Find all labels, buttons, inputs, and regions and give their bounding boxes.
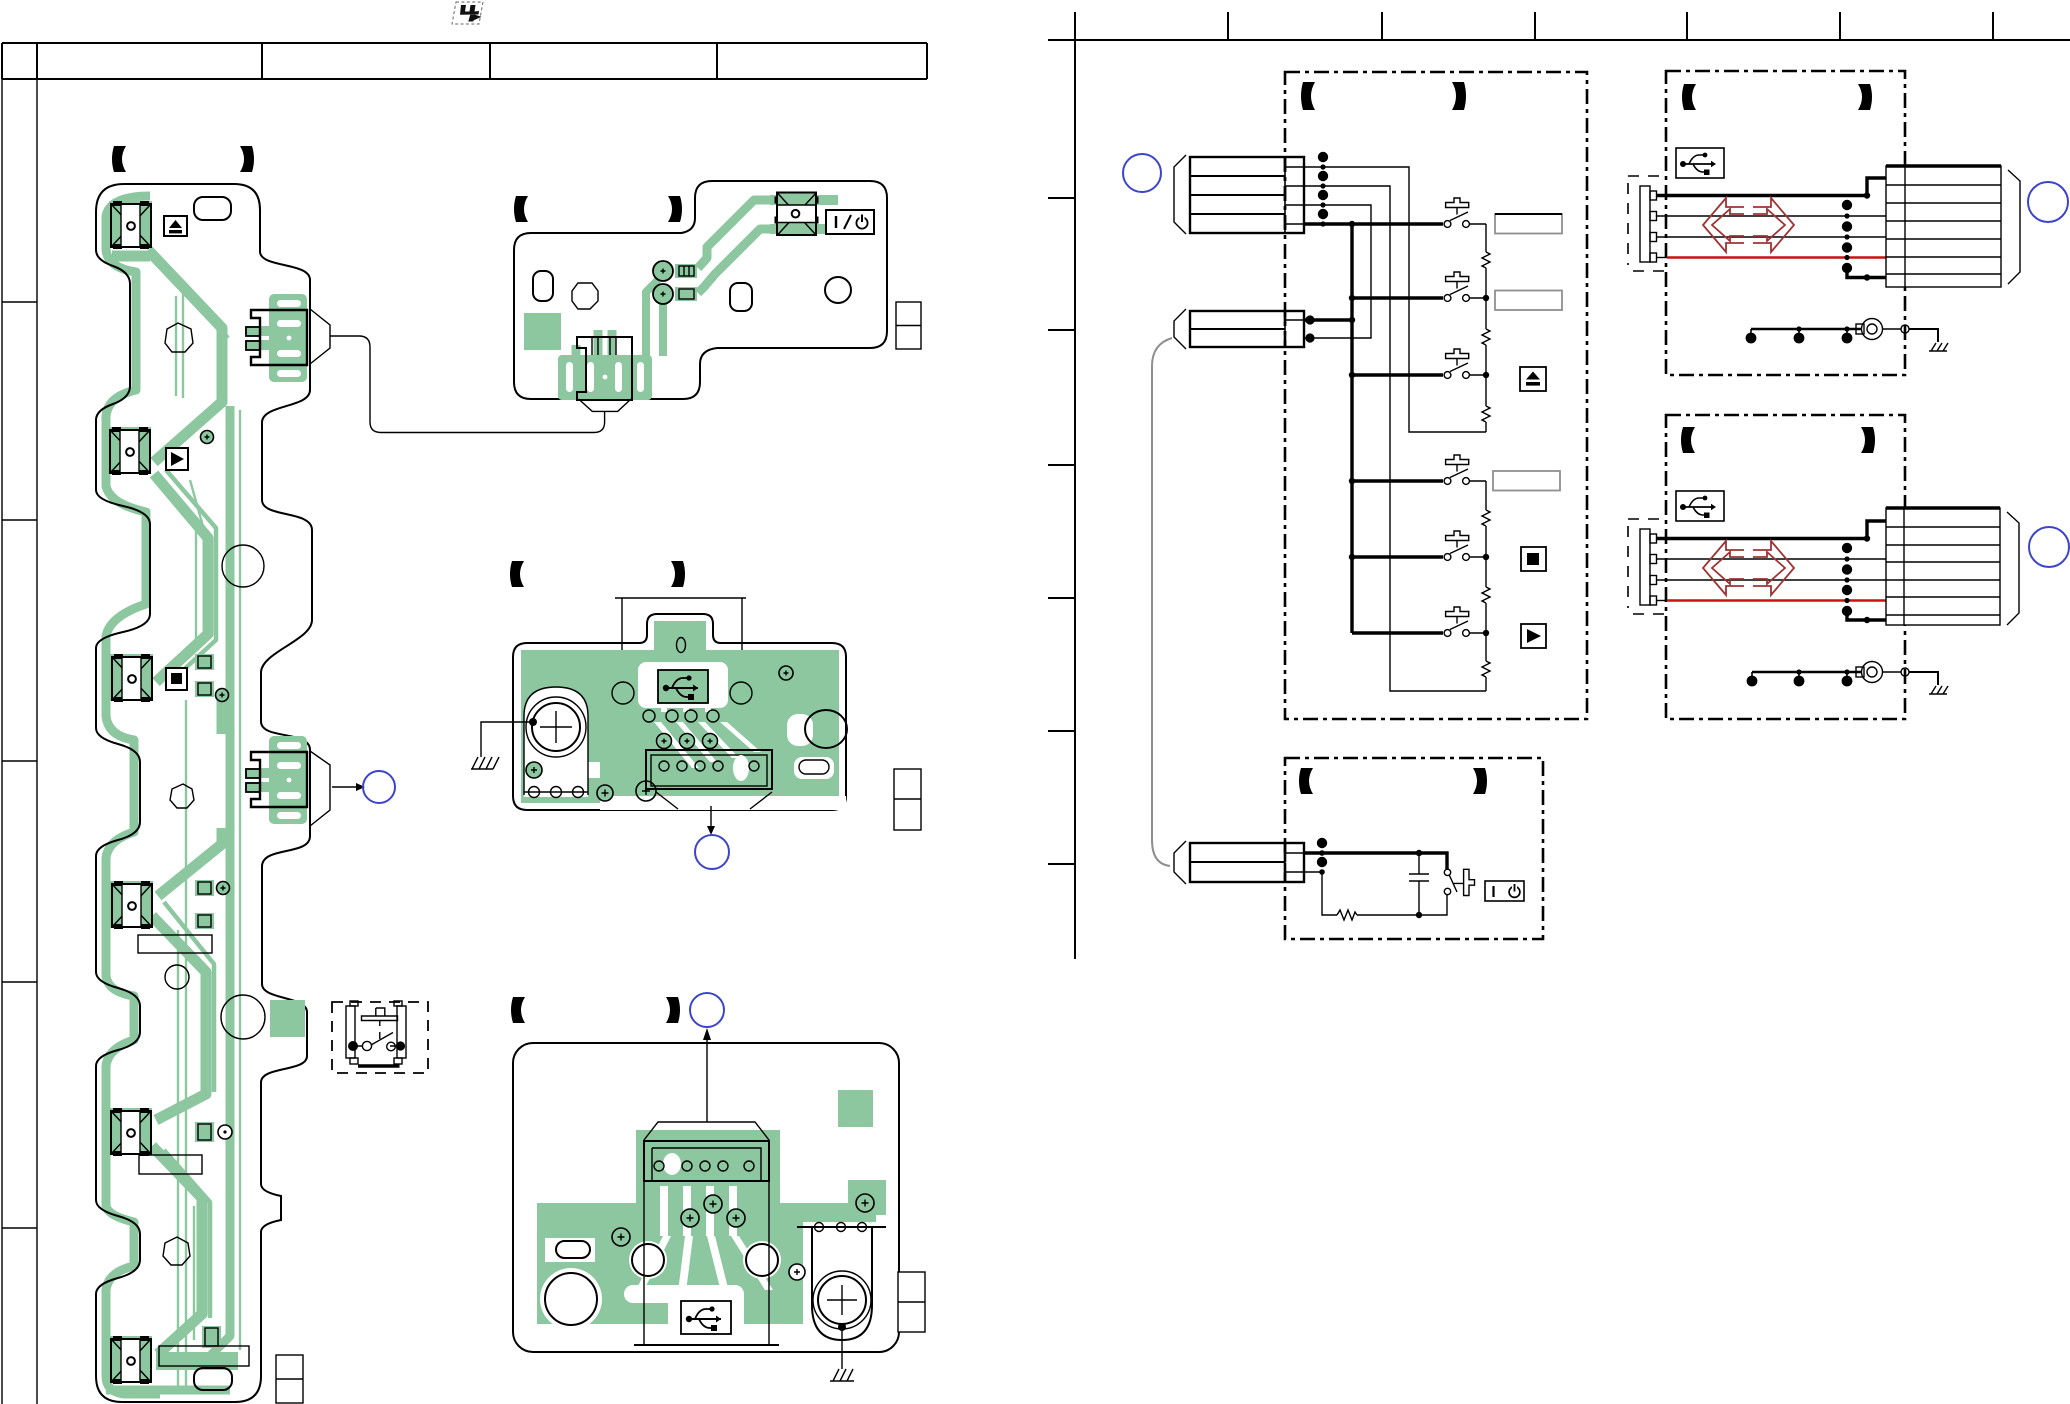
gray interconnect wire	[1152, 338, 1172, 866]
top border rule (schematic zone)	[1048, 12, 2070, 959]
ring terminal block1	[1856, 324, 1864, 334]
block1 ground bus	[1751, 329, 1862, 334]
thick row wires to switches	[1352, 298, 1443, 633]
usb icon box block2	[1676, 491, 1724, 521]
block2 wires	[1657, 521, 1886, 539]
block2 header brackets	[1681, 427, 1695, 453]
usb connector block2	[1886, 508, 2000, 625]
green trace: left edge contour	[106, 196, 160, 1394]
ground symbol	[471, 757, 499, 769]
slot hole right	[730, 283, 752, 311]
small slot hole	[799, 760, 829, 774]
pad with + near S5	[218, 1125, 232, 1139]
red cross arrows block2	[1703, 541, 1794, 595]
power block header brackets	[1299, 768, 1313, 794]
key label box row1	[1495, 214, 1562, 234]
circle hole right	[825, 277, 851, 303]
block2 bottom thick link	[1847, 611, 1886, 620]
screw boss bottom	[813, 1271, 871, 1329]
block1 wire dots	[1842, 192, 1870, 280]
TOP MIDDLE PCB	[514, 181, 921, 411]
dash-dot overlay on connector dividers	[1284, 157, 1287, 882]
section header bracket right	[668, 196, 682, 222]
usb block2 dash-dot border	[1666, 415, 1905, 719]
usb icon box block1	[1676, 148, 1724, 178]
key label box row2	[1495, 291, 1562, 311]
switch S3 schematic	[1444, 349, 1486, 378]
left zone column	[2, 79, 37, 1404]
green fill square upper bottom zone	[270, 1000, 305, 1037]
key block dash-dot border	[1285, 72, 1587, 719]
power label box I/O	[826, 210, 874, 234]
screw boss tombstone	[524, 687, 588, 798]
connector CN5 body	[644, 1141, 769, 1181]
connector CN6 bracket	[1174, 155, 1186, 234]
connector CN4 body	[646, 750, 772, 789]
ffc dashed enclosure block1	[1628, 176, 1668, 271]
white cutouts	[524, 662, 846, 810]
power board outline	[514, 181, 887, 399]
arrow from connector up to ref C	[706, 1040, 708, 1122]
board outline with top bump	[513, 614, 846, 810]
zone ref box right of bottom pcb	[898, 1272, 925, 1332]
switch S3 (stop)	[110, 654, 153, 702]
chip R footprint above S6 rect	[202, 1326, 221, 1348]
big oval hole	[805, 710, 847, 748]
wire from CN1 to power board connector	[310, 309, 605, 433]
green trace: secondary vertical trunk	[206, 406, 230, 1360]
bottom cap lines	[628, 1345, 785, 1352]
parts table header row	[2, 43, 927, 79]
zone ref box right of power board	[896, 302, 921, 349]
CN4 pin circles	[597, 755, 759, 801]
power switch S7 (horizontal)	[775, 193, 819, 236]
pad + right	[779, 666, 793, 680]
USB jack projection rect	[615, 598, 746, 723]
block1 header brackets	[1682, 84, 1696, 110]
power block dash-dot border	[1285, 758, 1543, 939]
switch S4	[110, 881, 153, 929]
section header bracket right	[671, 561, 685, 587]
octagon hole 2	[170, 784, 194, 808]
+ pads center	[612, 1194, 874, 1280]
octagon hole	[572, 283, 598, 309]
logo mark top center	[452, 2, 483, 24]
CN5 green pads	[654, 1150, 759, 1178]
pad with + near S4	[217, 882, 230, 895]
board outline	[513, 1043, 899, 1352]
BOTTOM PCB	[511, 993, 925, 1381]
connector CN6 (key, 4p)	[1190, 157, 1304, 233]
switch S2 schematic	[1444, 272, 1486, 301]
switch S4 schematic	[1444, 455, 1486, 484]
CN6 key common wire (thick)	[1304, 224, 1443, 633]
connector CN3 body	[577, 337, 632, 400]
connector CN8 bracket	[1174, 841, 1186, 884]
white channels in green	[540, 1186, 881, 1338]
block1 right bracket	[2008, 170, 2020, 284]
chip R footprint near S5	[195, 1122, 214, 1142]
ground symbol	[830, 1369, 854, 1381]
circle holes flanking connector	[632, 1244, 664, 1276]
switch S1 schematic (eject row1)	[1444, 198, 1486, 227]
bump hole	[677, 638, 686, 653]
power board green traces	[646, 195, 843, 356]
red cross arrows block1	[1703, 198, 1794, 252]
CN8 wires	[1304, 853, 1447, 869]
USB icon (mid board)	[658, 670, 708, 703]
stop icon box	[166, 668, 187, 690]
switch S6	[109, 1336, 152, 1384]
board green copper	[537, 1090, 886, 1324]
eject icon box	[164, 216, 187, 236]
component rect below S4	[138, 935, 212, 953]
chip R footprints near S4	[195, 880, 214, 896]
connector CN4 pads row	[643, 710, 719, 749]
green trace: main zig-zag trunk	[112, 250, 222, 1354]
oval slot hole left	[556, 1241, 590, 1258]
FLEX BOARD	[96, 146, 605, 1403]
ref circle D (left of CN6)	[1123, 154, 1161, 192]
resistor chain group 2	[1482, 481, 1490, 691]
connector CN7 bracket	[1174, 309, 1186, 349]
ring terminal block2	[1856, 667, 1864, 677]
detail dashed box: switch symbol	[332, 1001, 428, 1073]
green trace: thin pair 2	[176, 296, 240, 1350]
usb connector block1	[1886, 166, 2001, 287]
power label box	[1485, 881, 1524, 901]
slot hole bottom	[194, 1368, 232, 1390]
CN6 wires to buses	[1304, 167, 1486, 691]
component rect below S5	[139, 1155, 202, 1174]
octagon hole 1	[165, 323, 193, 352]
switch S6 schematic	[1444, 607, 1486, 636]
big circle hole left	[545, 1273, 597, 1325]
ground lead from screw	[529, 718, 537, 726]
block2 right bracket	[2007, 512, 2019, 625]
switch S1 (eject)	[109, 201, 152, 249]
board outline	[96, 184, 312, 1402]
play icon box (schematic)	[1521, 624, 1546, 648]
block2 ground bus	[1752, 672, 1862, 677]
chassis ground block1	[1929, 343, 1948, 351]
connector CN7 (key, 2p)	[1190, 311, 1304, 347]
board holes flanking usb icon	[612, 682, 634, 704]
zone ref box right of mid pcb	[894, 769, 921, 830]
power wire dots	[1317, 838, 1422, 918]
wire dots at CN6	[1318, 152, 1355, 227]
board green copper	[521, 621, 839, 803]
ref circle A (flex)	[363, 771, 395, 803]
section header bracket right	[240, 146, 254, 172]
green trace: bottom band	[106, 1386, 230, 1395]
chip R footprints near S3	[195, 654, 214, 670]
USB jack projection lower	[644, 1181, 769, 1345]
green bar behind S6 component	[156, 1352, 238, 1370]
connector CN1 green pads	[245, 294, 307, 382]
octagon hole 3	[163, 1237, 190, 1265]
switch S5 schematic	[1444, 531, 1486, 560]
green trace: thin pair 1	[158, 282, 204, 1390]
power resistor	[1337, 910, 1357, 920]
CN3 funnel to wire	[579, 399, 631, 411]
zone ref box bottom (flex)	[276, 1355, 303, 1403]
connector CN5 trapezoid cap	[644, 1122, 769, 1140]
eject icon box (schematic)	[1520, 367, 1546, 391]
play icon box	[166, 448, 188, 470]
red wire block2	[1657, 600, 1667, 602]
usb block1 dash-dot border	[1666, 71, 1905, 375]
section header bracket left	[511, 997, 525, 1023]
ref circle E (block1)	[2028, 182, 2068, 222]
circle hole below S4	[165, 965, 189, 989]
red wire block1	[1657, 257, 1667, 259]
block1 bottom thick link	[1847, 268, 1886, 278]
ground from screw	[838, 1323, 846, 1331]
ffc connector block2	[1640, 529, 1657, 605]
connector CN3 pads	[558, 330, 652, 400]
screw keyhole outline	[812, 1228, 872, 1340]
resistor chain group 1	[1482, 224, 1490, 432]
pad with + near S3	[216, 689, 229, 702]
ref circle B (mid pcb)	[695, 835, 729, 869]
key label box row4	[1493, 471, 1560, 491]
section header bracket left	[514, 196, 528, 222]
connector CN8 (power, 2p)	[1190, 843, 1304, 882]
power switch schematic (vertical)	[1444, 869, 1474, 895]
CN2 funnel and arrow to ref A	[310, 751, 356, 826]
block1 wires	[1657, 178, 1886, 196]
connector CN2 body	[246, 752, 307, 807]
CN7 wires	[1304, 318, 1352, 321]
circle hole next to green square	[221, 995, 265, 1039]
switch S2 (play)	[108, 427, 151, 475]
connector CN1 body	[246, 310, 307, 365]
funnel and arrow to ref B	[656, 792, 772, 828]
ffc dashed enclosure block2	[1628, 519, 1668, 614]
ref circle F (block2)	[2029, 527, 2069, 567]
mounting slot hole top	[194, 197, 231, 220]
key block header brackets	[1301, 82, 1315, 110]
section header bracket right	[666, 997, 680, 1023]
section header bracket left	[112, 146, 126, 172]
resistor pad with + near S2	[201, 431, 214, 444]
power capacitor	[1409, 853, 1429, 915]
switch S5	[109, 1108, 152, 1156]
component rect right of S6	[159, 1346, 249, 1366]
ref circle C (bottom pcb)	[690, 993, 724, 1027]
green fill square	[524, 313, 561, 350]
stop icon box (schematic)	[1521, 547, 1546, 571]
block2 wire dots	[1842, 535, 1870, 623]
section header bracket left	[510, 561, 524, 587]
circle hole mid board	[222, 545, 264, 587]
USB icon (bottom board)	[681, 1301, 731, 1334]
slot hole left	[533, 271, 553, 301]
MIDDLE PCB	[471, 561, 921, 869]
green trace: medium weaves	[160, 264, 228, 1318]
ffc connector block1	[1640, 186, 1657, 262]
chassis ground block2	[1929, 686, 1948, 694]
connector CN2 green pads	[245, 736, 307, 824]
